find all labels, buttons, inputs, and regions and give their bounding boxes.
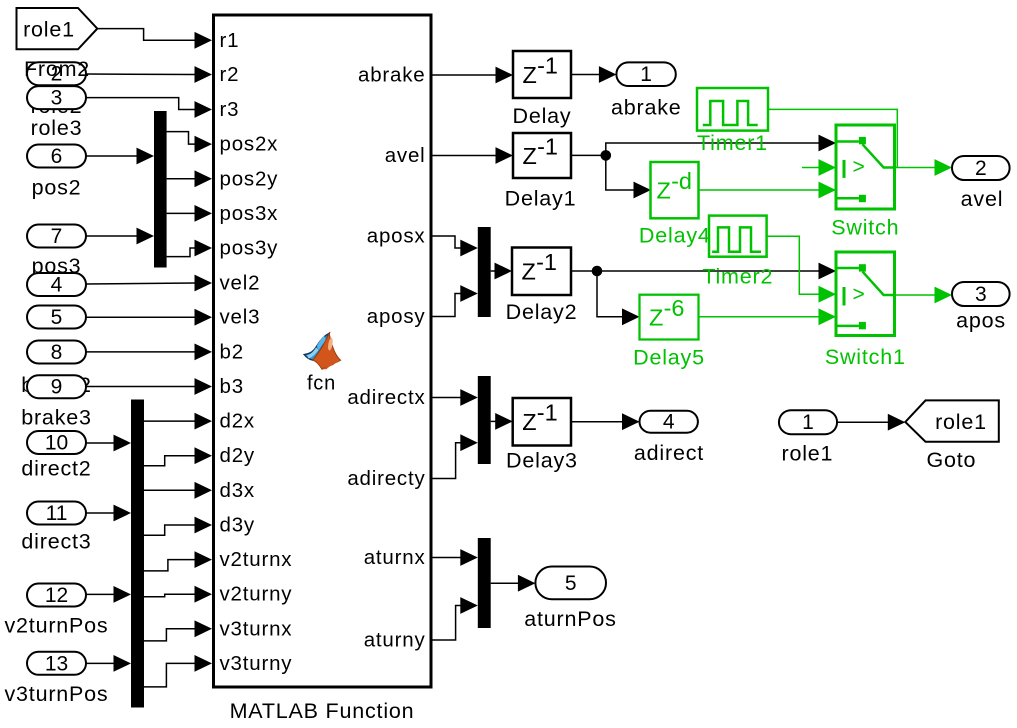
wire adirecty to Mux4 [431,434,478,478]
svg-text:5: 5 [565,572,577,595]
delay block Delay5 (Z-6) [640,295,699,340]
svg-text:v3turnx: v3turnx [220,617,293,640]
svg-text:d3x: d3x [220,479,255,502]
svg-text:5: 5 [51,306,63,329]
svg-text:-6: -6 [664,295,685,321]
svg-text:apos: apos [956,309,1006,333]
svg-text:-1: -1 [537,53,558,79]
label Delay [513,104,572,128]
label brake3 [21,406,92,430]
svg-text:Delay4: Delay4 [639,224,711,248]
svg-text:Z: Z [522,409,536,435]
svg-text:Delay3: Delay3 [506,448,578,472]
svg-text:-d: -d [671,168,692,194]
port label aposx [367,225,426,248]
label Delay1 [505,187,577,211]
label direct2 [21,457,91,481]
svg-text:direct2: direct2 [21,457,91,481]
wire junction J1 to Delay4 [606,155,651,198]
svg-text:d2x: d2x [220,410,255,433]
port label d2y [220,444,255,467]
label brake2 (hidden behind inport 9) [21,373,92,397]
wire Delay to outport 1 [571,66,616,83]
label v3turnPos [4,682,108,706]
wire Mux1 out3 to pos3x [167,205,212,222]
wire aposy to Mux3 [431,285,478,316]
inport 3 (role3) [27,86,86,110]
label fcn [307,373,336,395]
svg-text:pos2: pos2 [32,176,82,200]
wire inport6 to Mux1 [86,148,154,165]
wire Mux5 to outport 5 [491,575,536,592]
mux Mux1 (pos signals) [154,111,167,268]
wire Mux2 out4 to d3y [144,517,212,536]
port label r2 [220,63,240,86]
wire inport2 to r2 [86,66,212,83]
delay block Delay2 [512,248,571,296]
wire Timer1 to Switch in2 [768,109,897,175]
timer block Timer2 [709,216,767,257]
wire Delay4 to Switch in3 [699,182,837,199]
svg-text:7: 7 [51,225,63,248]
svg-text:Delay5: Delay5 [633,345,705,369]
svg-text:4: 4 [51,274,63,297]
inport 5 (vel3) [27,306,86,330]
wire Switch to outport 2 [895,159,953,176]
port label d3x [220,479,255,502]
svg-text:v3turny: v3turny [220,652,293,675]
svg-text:>: > [852,283,865,306]
port label r3 [220,98,240,121]
port label b2 [220,340,244,363]
svg-text:brake3: brake3 [21,406,92,430]
svg-text:pos3y: pos3y [220,237,279,260]
label Delay2 [506,300,578,324]
inport 7 (pos3) [27,225,86,249]
svg-text:Timer2: Timer2 [702,264,773,288]
label Switch1 [825,345,906,369]
delay block Delay3 [513,398,571,446]
outport 5 (aturnPos) [535,567,606,600]
port label aposy [367,305,426,328]
inport 2 (role2) [27,62,86,85]
svg-text:direct3: direct3 [21,530,91,554]
svg-text:aturny: aturny [364,629,426,652]
label vel2 (hidden behind inport 5) [35,302,78,326]
svg-text:11: 11 [46,502,68,525]
wire Mux1 out4 to pos3y [167,240,212,257]
svg-text:r1: r1 [220,29,240,52]
outport 4 (adirect) [640,411,698,434]
svg-text:Z: Z [657,178,671,204]
svg-text:-1: -1 [537,400,558,426]
wire Mux1 out1 to pos2x [167,132,212,153]
port label r1 [220,29,240,52]
wire aposx to Mux3 [431,236,478,256]
svg-text:-1: -1 [536,249,557,275]
label MATLAB Function [230,699,415,723]
outport 3 (apos) [952,282,1010,306]
svg-text:Delay1: Delay1 [505,187,577,211]
switch block Switch1 [836,252,895,336]
wire junction J1 to Switch in1 [606,135,836,156]
port label vel2 [220,272,261,295]
label aturnPos [524,607,616,631]
junction J1 [601,150,612,161]
inport 4 (vel2) [27,273,86,297]
port label pos3y [220,237,279,260]
wire Mux2 out2 to d2y [144,447,212,466]
svg-text:r2: r2 [220,63,240,86]
svg-text:aturnPos: aturnPos [524,607,616,631]
port label abrake [358,64,425,87]
svg-text:Z: Z [523,62,537,88]
wire Mux1 out2 to pos2y [167,170,212,187]
svg-text:pos3x: pos3x [220,202,279,225]
wire inport12 to Mux2 [86,586,131,603]
wire Delay5 to Switch1 in3 [699,308,837,325]
svg-text:vel3: vel3 [220,306,261,329]
svg-text:pos2y: pos2y [220,167,279,190]
svg-text:v2turny: v2turny [220,583,293,606]
label role3 [31,116,83,140]
svg-text:avel: avel [961,187,1004,211]
icon MATLAB logo (fcn) [304,333,340,369]
svg-text:3: 3 [51,87,63,110]
svg-text:Z: Z [522,258,536,284]
port label v3turny [220,652,293,675]
port label v3turnx [220,617,293,640]
label Switch [831,216,899,240]
inport 10 (direct2) [27,431,86,455]
svg-text:1: 1 [640,63,652,86]
label abrake [611,95,682,119]
wire inport8 to b2 [86,344,212,361]
label vel3 (hidden behind inport 8) [35,337,78,361]
port label pos2y [220,167,279,190]
label Timer1 [697,131,768,155]
wire inport5 to vel3 [86,309,212,326]
goto tag Goto (role1) [905,400,999,441]
wire Delay1 to junction [571,154,606,156]
svg-text:b3: b3 [220,375,244,398]
svg-text:v2turnx: v2turnx [220,548,293,571]
wire inport13 to Mux2 [86,655,131,672]
svg-text:aposy: aposy [367,305,426,328]
svg-text:1: 1 [802,411,814,434]
wire abrake to Delay [431,67,513,84]
delay block Delay [513,51,571,98]
wire inport7 to Mux1 [86,228,154,245]
label direct3 [21,530,91,554]
svg-text:13: 13 [45,652,68,675]
outport 2 (avel) [952,156,1010,180]
wire Mux4 to Delay3 [491,413,513,430]
port label aturnx [364,546,426,569]
wire Mux2 out5 to v2turnx [144,551,212,571]
svg-text:Timer1: Timer1 [697,131,768,155]
svg-text:fcn: fcn [307,373,336,395]
port label v2turny [220,583,293,606]
port label adirectx [347,386,425,409]
svg-text:Goto: Goto [926,448,976,472]
inport 11 (direct3) [27,502,86,526]
wire Mux2 out7 to v3turnx [144,620,212,641]
svg-text:4: 4 [663,411,675,434]
svg-text:Delay: Delay [513,104,572,128]
label Delay4 [639,224,711,248]
timer block Timer1 [697,88,768,131]
svg-text:role1: role1 [935,410,987,434]
svg-text:v2turnPos: v2turnPos [4,613,108,637]
port label pos3x [220,202,279,225]
svg-text:2: 2 [975,157,987,180]
svg-text:From2: From2 [24,57,90,81]
svg-text:adirect: adirect [634,441,704,465]
wire From2 to r1 [97,29,212,49]
wire avel to Delay1 [431,147,513,164]
wire Mux2 out1 to d2x [144,413,212,430]
svg-text:3: 3 [975,283,987,306]
svg-text:d3y: d3y [220,514,255,537]
wire Switch1 to outport 3 [895,287,953,304]
wire inport9 to b3 [86,378,212,395]
svg-text:-1: -1 [537,134,558,160]
label Delay5 [633,345,705,369]
wire inport1 to Goto [837,414,905,431]
inport 13 (v3turnPos) [27,652,86,676]
label From2 (overlapping inport 2) [24,57,90,81]
wire Mux2 out6 to v2turny [144,586,212,603]
svg-text:role1: role1 [781,442,833,466]
svg-text:role1: role1 [23,18,75,42]
wire junction J2 to Switch1 in1 [597,263,836,280]
svg-text:Switch: Switch [831,216,899,240]
label Timer2 [702,264,773,288]
svg-text:12: 12 [45,584,68,607]
switch block Switch [836,125,895,209]
goto-from tag From2 (role1) [17,8,98,49]
wire aturnx to Mux5 [431,549,478,566]
label role2 (hidden behind inport 3) [31,94,83,118]
svg-text:adirecty: adirecty [347,467,425,490]
inport 12 (v2turnPos) [27,584,86,608]
wire Mux3 to Delay2 [491,263,512,280]
svg-text:abrake: abrake [358,64,425,87]
inport 1 (role1) [779,410,837,434]
mux Mux2 (direct/turn signals) [131,400,144,708]
junction J2 [592,266,603,277]
wire inport3 to r3 [86,98,212,118]
wire adirectx to Mux4 [431,389,478,406]
label apos [956,309,1006,333]
wire Delay2 to junction [571,270,597,272]
mux Mux3 (apos) [478,227,491,317]
port label b3 [220,375,244,398]
port label d2x [220,410,255,433]
svg-text:>: > [852,156,865,179]
port label aturny [364,629,426,652]
port label vel3 [220,306,261,329]
inport 8 (brake2) [27,341,86,365]
wire Delay3 to outport 4 [571,413,640,430]
svg-text:aposx: aposx [367,225,426,248]
label pos2 [32,176,82,200]
label avel [961,187,1004,211]
svg-text:role3: role3 [31,116,83,140]
port label v2turnx [220,548,293,571]
svg-text:9: 9 [51,376,63,399]
wire inport10 to Mux2 [86,435,131,452]
delay block Delay4 (Z-d) [651,162,699,218]
svg-text:pos2x: pos2x [220,133,279,156]
outport 1 (abrake) [616,62,675,86]
svg-text:adirectx: adirectx [347,386,425,409]
MATLAB Function block U1 [214,15,432,687]
wire inport11 to Mux2 [86,505,131,522]
mux Mux5 (aturn) [478,538,491,628]
wire Mux2 out8 to v3turny [144,655,212,687]
svg-text:Switch1: Switch1 [825,345,906,369]
delay block Delay1 [513,133,571,178]
svg-text:r3: r3 [220,98,240,121]
label v2turnPos [4,613,108,637]
wire aturny to Mux5 [431,597,478,640]
label role1 [781,442,833,466]
svg-text:v3turnPos: v3turnPos [4,682,108,706]
wire inport4 to vel2 [86,275,212,292]
svg-text:abrake: abrake [611,95,682,119]
port label adirecty [347,467,425,490]
wire Mux2 out3 to d3x [144,482,212,499]
svg-text:6: 6 [51,145,63,168]
svg-text:Z: Z [649,304,663,330]
svg-text:b2: b2 [220,340,244,363]
svg-text:avel: avel [385,144,426,167]
svg-text:8: 8 [51,341,63,364]
wire junction J2 to Delay5 [597,271,640,325]
label adirect [634,441,704,465]
port label d3y [220,514,255,537]
svg-text:aturnx: aturnx [364,546,426,569]
label Delay3 [506,448,578,472]
inport 9 (brake3) [27,375,86,399]
svg-text:vel2: vel2 [220,272,261,295]
port label pos2x [220,133,279,156]
label Goto [926,448,976,472]
port label avel [385,144,426,167]
mux Mux4 (adirect) [478,376,491,464]
svg-text:Z: Z [523,143,537,169]
inport 6 (pos2) [27,145,86,169]
wire Timer2 to Switch1 in2 [767,236,836,302]
svg-text:10: 10 [45,432,68,455]
svg-text:d2y: d2y [220,444,255,467]
svg-text:Delay2: Delay2 [506,300,578,324]
label pos3 [32,254,82,278]
svg-text:MATLAB Function: MATLAB Function [230,699,415,723]
